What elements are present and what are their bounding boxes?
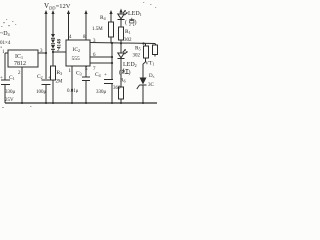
capacitor C3 0.01u: [67, 66, 90, 103]
wire pin 3 output: [90, 43, 155, 44]
svg-text:R3: R3: [57, 70, 63, 76]
ground rail: [5, 102, 157, 104]
svg-text:R1: R1: [125, 29, 131, 35]
resistor R4 1.5M: [92, 15, 114, 43]
svg-text:VT1: VT1: [145, 61, 154, 67]
svg-text:C3: C3: [76, 71, 82, 77]
wire pin 1 ground 555: [71, 66, 73, 103]
text bridge label D1-D4: [0, 31, 11, 46]
svg-text:330μ: 330μ: [96, 90, 107, 95]
wire 7812 output: [38, 52, 46, 54]
svg-text:100μ: 100μ: [36, 90, 47, 95]
svg-text:4148: 4148: [58, 39, 63, 50]
wire supply riser to diode chain: [51, 10, 54, 33]
scan speckles: [1, 2, 157, 108]
svg-text:25V: 25V: [5, 98, 14, 103]
svg-text:C4: C4: [95, 72, 101, 78]
wire timing node: [111, 42, 112, 44]
wire pin 2: [53, 51, 66, 53]
transistor VT1 SCR: [137, 61, 155, 104]
svg-text:D5: D5: [149, 74, 155, 79]
svg-text:C2: C2: [37, 74, 43, 80]
svg-text:): ): [129, 69, 131, 76]
wire supply riser to pin 4: [67, 10, 70, 40]
wire supply riser to R4: [109, 10, 112, 22]
node VDD label: [44, 2, 71, 11]
svg-text:2M: 2M: [56, 80, 64, 85]
svg-text:LED2: LED2: [123, 62, 137, 68]
wire pin 7: [90, 62, 112, 64]
svg-text:VDD=12V: VDD=12V: [44, 2, 71, 11]
svg-text:R5: R5: [135, 46, 141, 52]
wire supply riser to LED1: [119, 9, 122, 15]
LED LED2 (red): [118, 43, 137, 87]
svg-text:+: +: [48, 76, 51, 81]
svg-text:3C: 3C: [148, 83, 155, 88]
wire supply riser to C2: [44, 10, 47, 103]
resistor R1 302: [119, 27, 133, 43]
svg-text:360: 360: [113, 86, 121, 91]
IC U1 7812 box: [8, 50, 38, 67]
svg-text:01×4: 01×4: [0, 41, 11, 46]
svg-text:~D4: ~D4: [0, 31, 10, 37]
diode chain D5-D7 sensor: [51, 33, 63, 66]
svg-text:555: 555: [72, 56, 81, 62]
svg-text:+: +: [0, 76, 3, 81]
svg-text:): ): [135, 19, 137, 26]
wire supply riser to pin 8: [84, 10, 87, 40]
svg-text:C1: C1: [9, 75, 15, 81]
svg-text:(: (: [125, 19, 127, 26]
capacitor C1 330u 25V: [0, 75, 16, 103]
node junction dots: [45, 42, 145, 64]
svg-text:IC1: IC1: [15, 54, 23, 60]
capacitor C4 330u: [95, 72, 113, 103]
svg-text:LED1: LED1: [128, 11, 142, 17]
svg-text:R4: R4: [100, 15, 106, 21]
svg-text:302: 302: [124, 38, 132, 43]
svg-text:(: (: [119, 69, 121, 76]
svg-text:7812: 7812: [14, 61, 26, 67]
resistor R6 360: [113, 78, 126, 104]
svg-text:1.5M: 1.5M: [92, 27, 103, 32]
svg-text:R6: R6: [120, 78, 126, 84]
svg-text:302: 302: [133, 54, 141, 59]
svg-text:+: +: [104, 73, 107, 78]
svg-text:0.01μ: 0.01μ: [67, 89, 79, 94]
resistor R5 302: [133, 44, 149, 78]
component half-cropped at right edge: [153, 44, 158, 57]
svg-text:IC2: IC2: [73, 47, 81, 53]
resistor R3 2M (sensor divider): [51, 66, 64, 103]
LED LED1 (yellow): [118, 10, 142, 27]
wire 7812 input: [5, 53, 8, 103]
IC U2 555 box: [66, 40, 90, 66]
svg-text:330μ: 330μ: [5, 90, 16, 95]
wire pin 6: [90, 56, 112, 58]
wire 7812 ground: [21, 67, 23, 103]
capacitor C2 100u: [36, 74, 51, 95]
